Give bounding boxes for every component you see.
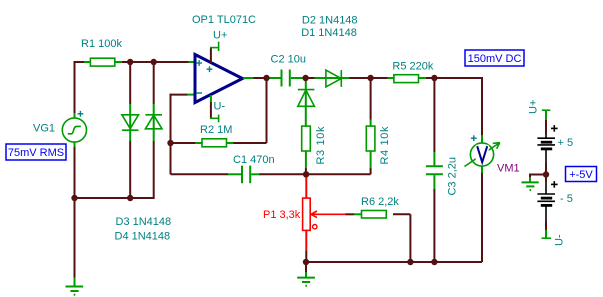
wire between batteries	[545, 163, 547, 175]
mini ground at battery midpoint	[522, 182, 539, 190]
node R1-D3 junction	[127, 59, 133, 65]
U- terminal of battery stack	[542, 237, 552, 239]
svg-text:VG1: VG1	[33, 123, 55, 135]
wire wiper to R6	[346, 213, 363, 215]
wire P1 bottom to rail	[305, 250, 307, 262]
op-amp supply plus mark	[207, 66, 213, 72]
op-amp input stubs	[187, 62, 254, 95]
svg-text:75mV RMS: 75mV RMS	[8, 147, 64, 159]
wire VG1 top lead	[74, 61, 76, 118]
diode D1	[314, 70, 349, 87]
wire D4 top lead	[153, 62, 155, 141]
ground below P1	[297, 278, 315, 286]
ground below VG1	[66, 287, 84, 295]
svg-text:- 5: - 5	[560, 193, 573, 205]
wire D3 bottom lead	[129, 141, 131, 198]
svg-text:+-5V: +-5V	[569, 169, 593, 181]
wire C1 row	[259, 168, 371, 174]
node C2-D2-D1 junction	[302, 75, 308, 81]
op-amp plus input mark	[196, 60, 202, 66]
svg-text:R4 10k: R4 10k	[379, 126, 391, 165]
node D3 bottom junction	[127, 195, 133, 201]
resistor R1	[84, 58, 122, 66]
node C1-R3-R4-P1 junction	[303, 171, 309, 177]
battery V- plus mark	[551, 181, 558, 188]
svg-text:P1 3,3k: P1 3,3k	[263, 209, 301, 221]
wire bottom rail	[306, 261, 482, 263]
resistor R5	[388, 75, 427, 83]
node C3 rail junction	[431, 259, 437, 265]
op-amp minus input mark	[196, 92, 202, 94]
U+ terminal of battery stack	[542, 110, 550, 120]
wire ground stem below VG1	[74, 198, 76, 287]
svg-text:D2 1N4148: D2 1N4148	[302, 15, 358, 27]
wire VM1 top pin	[481, 135, 483, 143]
svg-text:R3 10k: R3 10k	[315, 126, 327, 165]
wire VM1 bottom lead	[481, 166, 483, 262]
wire ground stem mid	[305, 262, 307, 278]
wire R3 bottom lead	[305, 151, 307, 175]
svg-text:R1 100k: R1 100k	[81, 38, 122, 50]
diode D3	[122, 115, 139, 130]
svg-text:C1 470n: C1 470n	[233, 154, 275, 166]
svg-text:D3 1N4148: D3 1N4148	[116, 216, 172, 228]
node output junction	[263, 75, 269, 81]
resistor R2	[195, 139, 234, 147]
svg-text:R2 1M: R2 1M	[200, 124, 232, 136]
wire VG1 bottom lead	[74, 142, 76, 199]
annotation 75mV RMS	[6, 144, 66, 160]
wire V- to U- terminal	[545, 221, 547, 238]
node D1-R4-R5 junction	[367, 75, 373, 81]
svg-text:C3 2,2u: C3 2,2u	[446, 157, 458, 196]
svg-text:D4 1N4148: D4 1N4148	[115, 231, 171, 243]
wire C3 branch	[433, 77, 435, 262]
wire R4 top lead	[370, 77, 372, 127]
wire R6 right to rail	[393, 214, 410, 262]
wire feedback node to C1	[171, 142, 229, 174]
svg-text:R5 220k: R5 220k	[392, 60, 433, 72]
wire battery mid junction to mini ground	[530, 174, 546, 183]
wire bottom-left row	[75, 197, 154, 199]
op-amp U+ power pin	[210, 42, 219, 63]
svg-text:C2 10u: C2 10u	[271, 54, 306, 66]
potentiometer P1	[303, 177, 346, 251]
annotation 150mV DC	[465, 50, 524, 66]
battery V+	[537, 134, 555, 164]
node P1-ground rail junction	[303, 259, 309, 265]
svg-text:+ 5: + 5	[558, 137, 574, 149]
svg-text:U+: U+	[528, 100, 540, 114]
wire R2 row	[171, 77, 267, 143]
wire inverting input	[171, 94, 189, 143]
svg-text:U+: U+	[213, 30, 227, 42]
op-amp U- power pin	[210, 95, 219, 122]
capacitor C1	[228, 166, 260, 184]
resistor R6	[362, 211, 387, 219]
wire D3 top lead	[129, 62, 131, 141]
VG1 plus mark	[78, 111, 84, 117]
capacitor C3	[426, 166, 443, 174]
wire R4 bottom lead	[370, 151, 372, 168]
wire output row	[253, 77, 482, 135]
op-amp U1 triangle	[195, 55, 243, 103]
wire junction to V- battery	[545, 175, 547, 182]
node R6 rail junction	[407, 259, 413, 265]
resistor R4	[366, 126, 375, 151]
svg-text:R6 2,2k: R6 2,2k	[361, 196, 399, 208]
svg-text:OP1 TL071C: OP1 TL071C	[192, 14, 256, 26]
svg-text:150mV DC: 150mV DC	[468, 53, 522, 65]
annotation +-5V	[566, 167, 597, 182]
node battery midpoint junction	[543, 171, 549, 177]
VM1 plus mark	[471, 135, 477, 141]
battery V+ plus mark	[551, 125, 558, 132]
svg-text:U-: U-	[554, 234, 566, 246]
battery V-	[537, 181, 555, 221]
wire D4 bottom lead	[153, 141, 155, 199]
wire U+ terminal to V+	[545, 120, 547, 134]
node D4 junction	[151, 59, 157, 65]
wire top row R1 to opamp	[75, 61, 190, 63]
voltage generator VG1	[62, 118, 86, 142]
wire D2 anode stem to R3	[305, 79, 307, 127]
node R5-C3-VM1 junction	[431, 75, 437, 81]
resistor R3	[302, 126, 311, 151]
voltmeter VM1	[465, 143, 500, 167]
svg-text:U-: U-	[214, 101, 226, 113]
node feedback junction	[167, 140, 173, 146]
svg-text:VM1: VM1	[497, 162, 520, 174]
capacitor C2	[269, 70, 304, 87]
node VG1 bottom junction	[71, 195, 77, 201]
svg-text:D1 1N4148: D1 1N4148	[301, 27, 357, 39]
diode D2	[298, 90, 315, 107]
diode D4	[145, 115, 162, 129]
